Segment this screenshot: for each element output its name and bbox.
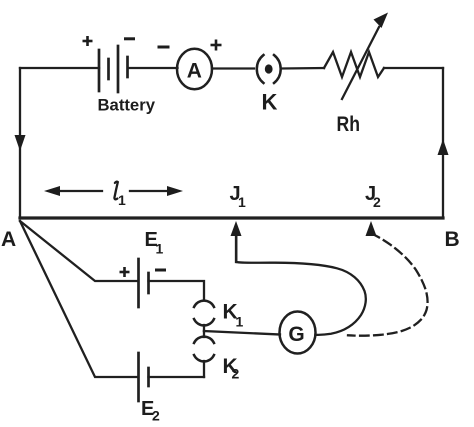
wire slant A to E2 branch [20,221,138,377]
svg-text:G: G [288,323,304,346]
minus sign ammeter left [158,46,170,49]
key K2 top arc [194,337,214,343]
wire E1 to K1 [149,281,205,300]
wire E2 to K2 [149,376,205,378]
battery Battery plates [99,46,128,92]
wire ammeter to key K [212,67,254,69]
jockey J1 wire [235,232,237,262]
minus sign E1 [155,269,166,272]
rheostat Rh zigzag [324,52,384,77]
wire AB potentiometer (thick) [20,216,443,219]
wire dashed curve to J2 [348,234,428,336]
key K1 bottom arc [194,319,214,325]
arrowhead l1 right [167,186,183,196]
wire slant A to E1 branch [20,221,138,281]
svg-text:2: 2 [373,194,381,210]
length l1 right arrow shaft [130,190,177,192]
key K2 bottom stem [203,361,205,377]
wire left vertical [19,68,21,218]
key K1 top arc [194,301,214,307]
svg-text:B: B [445,228,460,251]
plus sign ammeter right [211,44,222,47]
arrowhead right vertical (up) [438,139,449,155]
wire top-left horizontal [20,67,99,69]
wire solid curve G to J1 [236,233,366,335]
svg-text:A: A [1,228,16,251]
wire key K to rheostat [282,67,324,70]
minus sign battery [124,37,135,40]
key K left arc [257,55,264,83]
arrowhead J2 (up) [366,221,377,236]
key K2 bottom arc [194,355,214,361]
arrowhead rheostat (up-right) [374,13,389,29]
svg-text:1: 1 [156,241,164,257]
wire right vertical [442,68,444,218]
plus sign E1 [120,271,130,274]
wire K junction to galvanometer G [204,331,280,335]
key K1 bottom stem [203,325,205,331]
cell E1 plates [139,259,149,307]
cell E2 plates [139,353,149,401]
svg-text:A: A [187,60,202,83]
wire rheostat to top-right corner [384,67,443,69]
svg-text:2: 2 [232,366,240,382]
svg-text:1: 1 [118,192,126,208]
arrowhead left vertical (down) [15,135,26,151]
key K dot [265,64,273,73]
arrowhead l1 left [44,186,60,196]
key K right arc [274,55,281,83]
svg-text:Battery: Battery [98,96,156,115]
rheostat Rh arrow shaft [342,27,379,99]
svg-text:K: K [262,90,278,115]
svg-text:2: 2 [152,408,160,424]
arrowhead J1 (up) [231,221,242,236]
svg-text:Rh: Rh [337,113,361,136]
plus sign battery [83,40,93,43]
wire battery to ammeter [128,67,178,69]
label l1 script ell [114,182,118,200]
length l1 left arrow shaft [50,190,102,192]
wire K junction to K2 [203,331,205,337]
ammeter A circle [177,49,212,90]
svg-text:1: 1 [236,314,244,330]
galvanometer G circle [280,312,316,354]
svg-text:1: 1 [238,194,246,210]
